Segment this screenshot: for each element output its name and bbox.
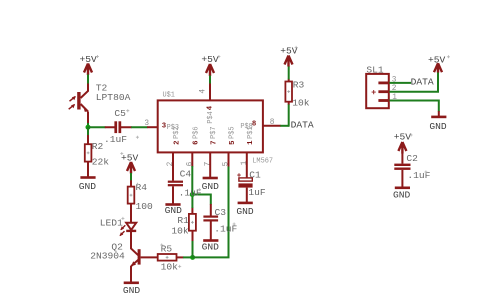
wire +5V to pin 4 (209, 76, 211, 101)
pin 1 label (241, 126, 255, 165)
wire node to C5 (88, 126, 106, 128)
ground under R2 (79, 178, 97, 193)
wire R1 to pin 6 node (191, 195, 193, 214)
wire LED1 to Q2 collector (131, 231, 138, 255)
wire DATA node up to R3 (288, 102, 290, 127)
pin 2 label (167, 126, 181, 166)
wire Q2 base to R5 (141, 256, 158, 258)
ground under C4 (165, 205, 183, 217)
wire C1 to ground (246, 188, 248, 203)
ground under C3 (202, 241, 220, 253)
pin 7 label (204, 126, 218, 166)
transistor Q2 2N3904 (90, 242, 140, 267)
wire +5V to T2 collector (81, 75, 88, 99)
svg-text:P$4: P$4 (207, 111, 215, 123)
wire R4 to LED1 (130, 204, 132, 223)
svg-text:GND: GND (165, 205, 183, 216)
svg-text:100: 100 (136, 201, 154, 212)
svg-text:U$1: U$1 (163, 92, 175, 100)
svg-text:2: 2 (173, 141, 181, 145)
svg-text:2N3904: 2N3904 (90, 250, 125, 261)
resistor R1 10k (171, 214, 196, 237)
svg-text:4: 4 (206, 105, 214, 110)
supply +5V arrow top-left (80, 54, 98, 75)
svg-text:GND: GND (236, 206, 254, 217)
resistor R2 22k (85, 141, 110, 167)
origin cross marks (96, 46, 450, 268)
ground under pin 7 (202, 178, 220, 192)
svg-text:1: 1 (247, 140, 255, 145)
svg-text:R1: R1 (177, 215, 189, 226)
pin 5 stub (228, 153, 230, 167)
wire node to C3 (192, 195, 211, 205)
ground at SL1 (429, 117, 447, 132)
transistor T2 phototransistor (69, 83, 131, 112)
pin 5 label (223, 126, 237, 166)
resistor R3 10k (285, 79, 309, 108)
wire +5V to C2 (401, 153, 403, 164)
wire node down to R2 (87, 127, 89, 144)
svg-text:.1uF: .1uF (179, 187, 202, 198)
svg-text:10k: 10k (292, 98, 310, 109)
svg-text:DATA: DATA (291, 120, 314, 131)
svg-text:LPT80A: LPT80A (96, 92, 131, 103)
pin 7 stub wire to ground (209, 153, 211, 178)
resistor R4 100 (128, 182, 153, 212)
svg-text:GND: GND (202, 242, 220, 253)
svg-text:6: 6 (193, 141, 201, 145)
wire R2 to ground (87, 162, 89, 178)
svg-text:5: 5 (229, 141, 237, 145)
svg-text:.1uF: .1uF (104, 134, 127, 145)
pin 4 label (200, 89, 215, 124)
resistor R5 10k (158, 243, 178, 272)
wire R3 to +5V (288, 66, 290, 82)
svg-text:LED1: LED1 (100, 218, 123, 229)
pin 8 label (240, 119, 274, 131)
ground under C1 (236, 203, 254, 217)
connector SL1 (366, 64, 397, 108)
wire node up to R1 (192, 231, 194, 258)
wire +5V to R4 (130, 173, 132, 187)
svg-text:C1: C1 (249, 169, 261, 180)
svg-text:P$7: P$7 (210, 126, 218, 138)
svg-text:5: 5 (223, 161, 231, 166)
wire Q2 emitter to ground (130, 266, 132, 282)
svg-text:.1uF: .1uF (407, 170, 430, 181)
LED LED1 (100, 218, 136, 236)
capacitor C1 1uF polarized (237, 169, 266, 197)
node junction at T2 emitter (86, 125, 91, 130)
svg-text:GND: GND (123, 285, 141, 296)
svg-text:C3: C3 (215, 207, 227, 218)
capacitor C4 .1uF (168, 169, 202, 199)
svg-text:+5V: +5V (394, 132, 412, 143)
svg-text:6: 6 (187, 161, 195, 166)
capacitor C2 .1uF (394, 153, 430, 181)
svg-text:10k: 10k (171, 226, 189, 237)
supply +5V arrow above C2 (394, 132, 412, 154)
svg-text:P$1: P$1 (247, 126, 255, 138)
node junction R5/R1/pin5 (190, 255, 195, 260)
svg-text:C2: C2 (406, 153, 418, 164)
svg-text:LM567: LM567 (252, 157, 273, 165)
ground under Q2 (123, 283, 141, 296)
supply +5V arrow at SL1 (428, 55, 446, 73)
pin 2 stub wire to C4 (172, 153, 174, 181)
svg-text:GND: GND (202, 181, 220, 192)
svg-text:C5: C5 (114, 108, 126, 119)
wire SL1 pin1 to ground (389, 101, 438, 117)
capacitor C5 .1uF (104, 108, 132, 145)
svg-text:7: 7 (211, 141, 219, 145)
wire SL1 pin2 to +5V (389, 72, 438, 92)
svg-text:DATA: DATA (411, 76, 434, 87)
svg-text:P$2: P$2 (173, 126, 181, 138)
capacitor C3 .1uF (203, 204, 237, 235)
wire C3 to ground (210, 222, 212, 241)
supply +5V arrow above R3 (280, 46, 298, 67)
svg-text:R2: R2 (92, 141, 104, 152)
svg-text:22k: 22k (92, 157, 110, 168)
pin 8 wire to DATA node (263, 125, 289, 127)
svg-text:P$6: P$6 (192, 126, 200, 138)
wire node to pin 5 (193, 166, 229, 257)
node junction pin6/R1/C3 (190, 192, 195, 197)
pin 6 stub wire (191, 153, 193, 195)
svg-text:+5V: +5V (201, 54, 219, 65)
wire C2 to ground (401, 170, 403, 187)
svg-text:1: 1 (241, 160, 249, 165)
wire T2 emitter to node (87, 112, 89, 124)
svg-text:3: 3 (144, 120, 149, 128)
svg-text:P$5: P$5 (229, 126, 237, 138)
IC U1 LM567 box (158, 92, 273, 166)
svg-text:1uF: 1uF (248, 187, 266, 198)
svg-text:R3: R3 (293, 79, 305, 90)
pin 6 label (187, 126, 201, 166)
svg-text:GND: GND (79, 181, 97, 192)
ground under C2 (393, 188, 411, 201)
svg-text:GND: GND (393, 189, 411, 200)
pin 1 stub wire to C1 (246, 153, 248, 178)
pin 3 label (144, 120, 179, 132)
wire R5 to node (177, 256, 193, 258)
wire C4 to ground (172, 186, 174, 204)
svg-text:C4: C4 (180, 169, 192, 180)
supply +5V arrow above pin 4 (201, 54, 219, 76)
svg-text:GND: GND (429, 121, 447, 132)
wire SL1 pin3 DATA (389, 82, 411, 84)
supply +5V arrow above R4 (121, 153, 139, 174)
svg-text:4: 4 (200, 89, 208, 94)
svg-text:10k: 10k (161, 262, 179, 273)
wire C5 to pin 3 (131, 126, 158, 128)
